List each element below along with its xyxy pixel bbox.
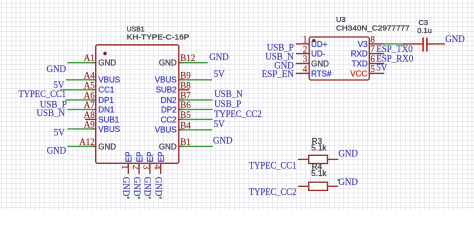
svg-text:B12: B12 bbox=[180, 53, 195, 63]
svg-text:USB_N: USB_N bbox=[214, 89, 243, 99]
U3 pin 4 (RTS#) bbox=[297, 72, 310, 74]
svg-text:VCC: VCC bbox=[350, 69, 367, 78]
svg-text:VBUS: VBUS bbox=[98, 125, 120, 134]
wire B12 to GND bbox=[182, 62, 207, 64]
svg-text:USB_N: USB_N bbox=[36, 108, 65, 118]
U3 pin 6 (TXD) bbox=[369, 63, 383, 65]
svg-text:B7: B7 bbox=[180, 90, 191, 100]
svg-text:5.1k: 5.1k bbox=[311, 144, 327, 153]
svg-text:SUB2: SUB2 bbox=[156, 86, 177, 95]
svg-text:GND: GND bbox=[213, 136, 233, 146]
svg-text:GND: GND bbox=[153, 177, 163, 197]
wire USB_P to A6 bbox=[66, 99, 93, 101]
svg-text:A6: A6 bbox=[84, 90, 95, 100]
svg-text:A9: A9 bbox=[84, 119, 95, 129]
svg-text:USB_P: USB_P bbox=[214, 99, 241, 109]
svg-text:3: 3 bbox=[142, 165, 152, 170]
wire B9 to 5V bbox=[182, 79, 212, 81]
svg-text:6: 6 bbox=[370, 54, 375, 64]
svg-text:DN2: DN2 bbox=[161, 96, 178, 105]
svg-text:VBUS: VBUS bbox=[98, 76, 120, 85]
svg-text:7: 7 bbox=[370, 44, 375, 54]
svg-text:GND: GND bbox=[338, 149, 358, 159]
svg-text:GND: GND bbox=[445, 34, 465, 44]
svg-text:VBUS: VBUS bbox=[155, 76, 177, 85]
svg-text:B8: B8 bbox=[180, 80, 191, 90]
svg-text:5V: 5V bbox=[214, 69, 226, 79]
USB1 pin B1 (GND) bbox=[179, 145, 183, 147]
wire 5V to A4 bbox=[67, 79, 93, 81]
svg-text:A5: A5 bbox=[84, 80, 95, 90]
wire B4 to 5V bbox=[182, 129, 212, 131]
svg-text:1: 1 bbox=[303, 35, 308, 45]
USB1 pin A9 (VBUS) bbox=[92, 128, 96, 130]
USB1 pin A1 (GND) bbox=[92, 62, 96, 64]
svg-text:1: 1 bbox=[120, 165, 130, 170]
svg-text:B4: B4 bbox=[180, 120, 191, 130]
svg-text:5V: 5V bbox=[214, 119, 226, 129]
svg-text:TYPEC_CC2: TYPEC_CC2 bbox=[214, 109, 262, 119]
USB1 pin A5 (CC1) bbox=[92, 89, 96, 91]
svg-text:EP: EP bbox=[135, 152, 144, 163]
svg-text:DN1: DN1 bbox=[98, 105, 115, 114]
svg-text:VBUS: VBUS bbox=[155, 126, 177, 135]
USB1 pin A4 (VBUS) bbox=[92, 79, 96, 81]
net label anchor dot (R4 GND) bbox=[338, 179, 340, 181]
USB1 pin B8 (SUB2) bbox=[179, 89, 189, 91]
IC U3 CH340N bbox=[309, 37, 369, 80]
svg-text:A7: A7 bbox=[84, 100, 95, 110]
svg-text:EP: EP bbox=[146, 152, 155, 163]
U3 pin 8 (V3) bbox=[369, 43, 383, 45]
USB1 pin A7 (DN1) bbox=[92, 109, 96, 111]
svg-text:GND: GND bbox=[338, 177, 358, 187]
svg-text:GND: GND bbox=[47, 64, 67, 74]
wire B5 to TYPEC_CC2 bbox=[182, 118, 212, 120]
U3 pin-1 marker dot bbox=[312, 39, 315, 42]
svg-text:4: 4 bbox=[303, 64, 308, 74]
U3 pin 3 (GND) bbox=[297, 63, 310, 65]
svg-text:SUB1: SUB1 bbox=[98, 115, 119, 124]
svg-text:5.1k: 5.1k bbox=[311, 169, 327, 178]
svg-text:KH-TYPE-C-16P: KH-TYPE-C-16P bbox=[127, 33, 190, 42]
svg-text:UD-: UD- bbox=[311, 50, 326, 59]
USB1 pin-1 marker dot bbox=[103, 52, 106, 55]
U3 pin 7 (RXD) bbox=[369, 53, 383, 55]
svg-text:B9: B9 bbox=[180, 70, 191, 80]
svg-text:CH340N_C2977777: CH340N_C2977777 bbox=[336, 24, 410, 33]
svg-text:B1: B1 bbox=[180, 137, 191, 147]
svg-text:GND: GND bbox=[159, 142, 177, 151]
wire USB_N to A7 bbox=[68, 109, 93, 111]
connector USB1 KH-TYPE-C-16P bbox=[96, 45, 179, 164]
svg-text:5V: 5V bbox=[376, 63, 388, 73]
net label anchor dot (shield pin 1) bbox=[127, 197, 129, 199]
USB1 pin B4 (VBUS) bbox=[179, 129, 183, 131]
svg-text:RTS#: RTS# bbox=[311, 69, 332, 78]
svg-text:EP: EP bbox=[157, 152, 166, 163]
USB1 shield pin 1 (EP) bbox=[127, 163, 129, 173]
U3 pin 1 (UD+) bbox=[297, 43, 310, 45]
svg-text:CC1: CC1 bbox=[98, 86, 115, 95]
svg-text:GND: GND bbox=[98, 142, 116, 151]
wire 5V to A9 bbox=[68, 128, 93, 130]
net label anchor dot (shield pin 2) bbox=[138, 197, 140, 199]
svg-text:ESP_TX0: ESP_TX0 bbox=[376, 44, 413, 54]
USB1 shield pin 2 (EP) bbox=[138, 163, 140, 173]
resistor R3 5.1k bbox=[299, 158, 309, 160]
net label anchor dot (shield pin 4) bbox=[160, 197, 162, 199]
svg-text:GND: GND bbox=[98, 59, 116, 68]
resistor R4 5.1k bbox=[299, 185, 309, 187]
USB1 pin B9 (VBUS) bbox=[179, 79, 183, 81]
svg-text:4: 4 bbox=[152, 165, 162, 170]
svg-text:GND: GND bbox=[143, 177, 153, 197]
wire B7 to USB_N bbox=[182, 99, 212, 101]
wire B1 to GND bbox=[182, 145, 212, 147]
svg-text:TYPEC_CC2: TYPEC_CC2 bbox=[249, 187, 297, 197]
U3 pin 2 (UD-) bbox=[297, 53, 310, 55]
USB1 pin B7 (DN2) bbox=[179, 99, 183, 101]
wire B6 to USB_P bbox=[182, 109, 212, 111]
USB1 shield pin 4 (EP) bbox=[160, 163, 162, 173]
svg-text:ESP_EN: ESP_EN bbox=[262, 69, 295, 79]
svg-text:B5: B5 bbox=[180, 110, 191, 120]
svg-text:TYPEC_CC1: TYPEC_CC1 bbox=[249, 160, 297, 170]
svg-text:8: 8 bbox=[370, 34, 375, 44]
svg-text:A4: A4 bbox=[84, 70, 95, 80]
svg-text:GND: GND bbox=[159, 59, 177, 68]
svg-text:GND: GND bbox=[209, 52, 229, 62]
USB1 pin B12 (GND) bbox=[179, 62, 183, 64]
svg-text:TXD: TXD bbox=[352, 59, 368, 68]
svg-text:A8: A8 bbox=[84, 110, 95, 120]
svg-text:2: 2 bbox=[303, 44, 308, 54]
net label anchor dot (shield pin 3) bbox=[149, 197, 151, 199]
svg-text:0.1u: 0.1u bbox=[417, 26, 432, 35]
wire GND to A1 bbox=[68, 62, 93, 64]
svg-text:GND: GND bbox=[47, 146, 67, 156]
svg-text:TYPEC_CC1: TYPEC_CC1 bbox=[19, 89, 67, 99]
USB1 pin A8 (SUB1) bbox=[86, 118, 96, 120]
svg-text:2: 2 bbox=[131, 165, 141, 170]
svg-text:DP1: DP1 bbox=[98, 96, 114, 105]
svg-text:3: 3 bbox=[303, 54, 308, 64]
svg-text:A1: A1 bbox=[84, 53, 95, 63]
capacitor C3 0.1u bbox=[404, 43, 423, 45]
svg-text:GND: GND bbox=[132, 177, 142, 197]
svg-text:A12: A12 bbox=[79, 137, 95, 147]
svg-text:V3: V3 bbox=[358, 40, 368, 49]
USB1 pin B5 (CC2) bbox=[179, 118, 183, 120]
svg-text:U3: U3 bbox=[336, 15, 346, 24]
svg-text:EP: EP bbox=[125, 152, 134, 163]
wire TYPEC_CC1 to A5 bbox=[61, 89, 93, 91]
wire U3 pin 8 (V3) to C3 bbox=[384, 43, 404, 45]
wire GND to A12 bbox=[68, 145, 93, 147]
U3 pin 5 (VCC) bbox=[369, 72, 383, 74]
USB1 pin B6 (DP2) bbox=[179, 109, 183, 111]
USB1 pin A6 (DP1) bbox=[92, 99, 96, 101]
svg-text:5V: 5V bbox=[54, 128, 66, 138]
USB1 shield pin 3 (EP) bbox=[149, 163, 151, 173]
svg-text:UD+: UD+ bbox=[311, 40, 328, 49]
svg-text:CC2: CC2 bbox=[161, 115, 178, 124]
svg-text:DP2: DP2 bbox=[161, 105, 177, 114]
USB1 pin A12 (GND) bbox=[92, 145, 96, 147]
svg-text:5: 5 bbox=[370, 64, 375, 74]
svg-text:GND: GND bbox=[311, 59, 329, 68]
svg-text:RXD: RXD bbox=[351, 50, 368, 59]
svg-text:B6: B6 bbox=[180, 100, 191, 110]
svg-text:GND: GND bbox=[121, 177, 131, 197]
